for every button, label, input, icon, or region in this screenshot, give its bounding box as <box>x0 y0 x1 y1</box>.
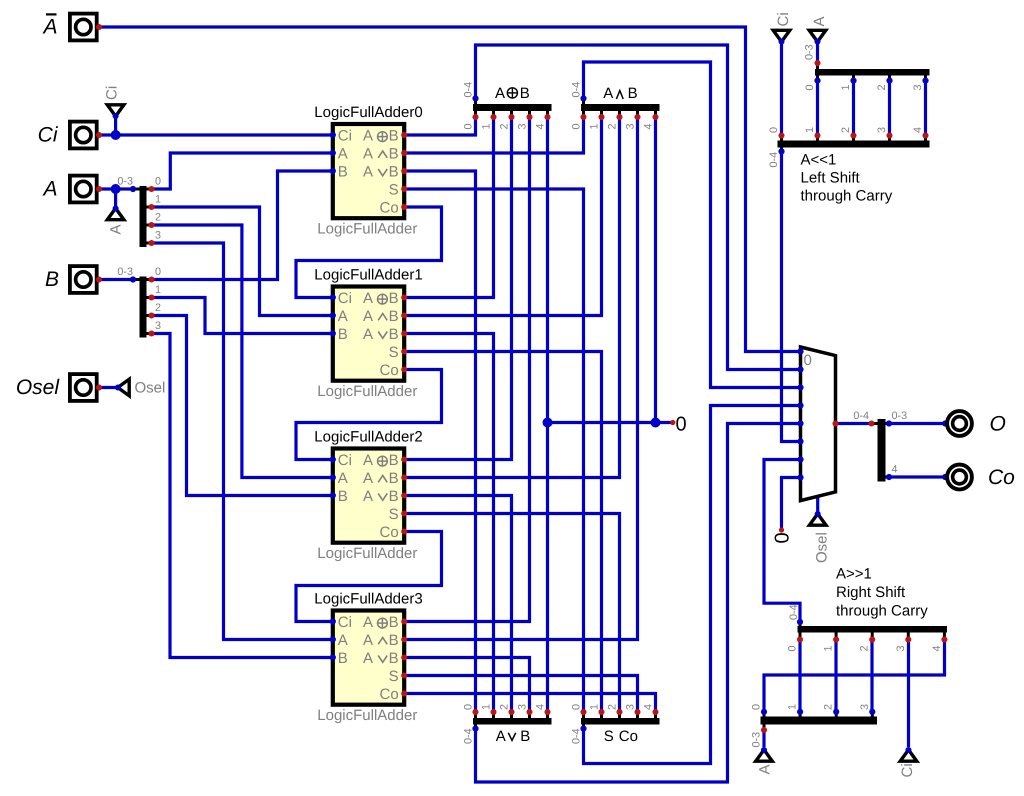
wire adder2 or out to merger <box>404 496 511 713</box>
svg-text:B: B <box>338 326 348 343</box>
wire shiftR bit2 to merger pin1 <box>834 640 837 712</box>
output Co <box>942 465 1015 490</box>
svg-text:B: B <box>45 268 59 291</box>
svg-text:A: A <box>363 650 373 667</box>
wire adder0 S out to merger <box>404 189 583 712</box>
svg-text:1: 1 <box>589 123 601 129</box>
svg-text:0-4: 0-4 <box>571 82 583 98</box>
svg-text:A>>1: A>>1 <box>836 566 872 583</box>
svg-text:Left Shift: Left Shift <box>801 170 861 187</box>
svg-text:0-4: 0-4 <box>463 728 475 744</box>
svg-text:LogicFullAdder: LogicFullAdder <box>317 707 417 724</box>
svg-text:B: B <box>389 326 399 343</box>
svg-text:A: A <box>496 728 506 745</box>
junction Ci tap <box>111 130 121 140</box>
wire adder1 Co to adder2 Ci <box>296 370 442 460</box>
svg-text:Co: Co <box>988 466 1015 489</box>
wire O output wire <box>889 422 946 425</box>
svg-text:4: 4 <box>535 704 547 710</box>
svg-text:0-3: 0-3 <box>804 44 816 60</box>
merger S Co 5 to 1 <box>571 704 660 745</box>
svg-text:4: 4 <box>535 123 547 129</box>
svg-text:O: O <box>990 413 1006 436</box>
tunnel Ci shiftL <box>773 12 792 44</box>
svg-text:2: 2 <box>155 212 161 224</box>
wire const 0 to mux in7 <box>782 478 801 529</box>
svg-text:0-4: 0-4 <box>463 82 475 98</box>
wire splitterB.1 to adder1.B <box>152 298 333 334</box>
wire A shl 1 result to mux in5 <box>782 152 801 442</box>
svg-text:0-3: 0-3 <box>751 732 763 748</box>
wire adder2 S out to merger <box>404 514 619 713</box>
wire Co output wire <box>889 475 946 478</box>
svg-text:3: 3 <box>155 230 161 242</box>
svg-text:A: A <box>363 488 373 505</box>
svg-text:0: 0 <box>571 704 583 710</box>
svg-text:2: 2 <box>607 123 619 129</box>
output O <box>942 411 1006 436</box>
svg-text:Co: Co <box>619 728 638 745</box>
svg-text:S: S <box>389 182 399 199</box>
wire Ci tunnel to shiftR merger pin3 <box>907 640 910 748</box>
svg-text:LogicFullAdder0: LogicFullAdder0 <box>314 104 422 121</box>
svg-text:B: B <box>338 650 348 667</box>
svg-text:A: A <box>363 470 373 487</box>
tunnel A shiftL <box>809 16 828 44</box>
svg-text:2: 2 <box>607 704 619 710</box>
svg-text:A: A <box>338 146 348 163</box>
svg-text:1: 1 <box>787 704 799 710</box>
wire shiftL bit2 to merger pin3 <box>888 81 891 136</box>
tunnel Osel left <box>115 379 165 396</box>
input Ci <box>38 122 102 149</box>
svg-text:A: A <box>363 164 373 181</box>
svg-text:S: S <box>389 344 399 361</box>
svg-text:B: B <box>389 614 399 631</box>
wire adder0 and out to merger <box>404 117 583 153</box>
merger shiftL 5 to 1 <box>768 127 930 205</box>
svg-text:0: 0 <box>804 84 816 90</box>
wire adder3 S out to merger <box>404 676 637 713</box>
svg-text:Ci: Ci <box>338 128 352 145</box>
junction A tap <box>111 184 121 194</box>
wire adder3 and out to merger <box>404 117 637 640</box>
svg-text:B: B <box>389 650 399 667</box>
wire adder0 Co to adder1 Ci <box>296 207 442 298</box>
svg-text:Ci: Ci <box>899 763 916 777</box>
svg-text:Osel: Osel <box>814 532 831 563</box>
tunnel A left <box>107 205 124 234</box>
wire Osel input to tunnel <box>99 386 117 389</box>
wire adder2 Co to adder3 Ci <box>296 532 442 622</box>
svg-text:0: 0 <box>768 127 780 133</box>
svg-text:B: B <box>389 470 399 487</box>
wire adder1 and out to merger <box>404 117 601 316</box>
svg-text:A<<1: A<<1 <box>801 152 837 169</box>
splitter shiftR A 1x4 <box>751 704 878 748</box>
svg-text:3: 3 <box>876 127 888 133</box>
wire A shr 1 result to mux in6 <box>764 460 801 623</box>
wire shiftL bit3 to merger pin4 <box>924 81 927 136</box>
wire adder1 or out to merger <box>404 334 493 713</box>
svg-text:LogicFullAdder: LogicFullAdder <box>317 383 417 400</box>
wire adder2 xor out to merger <box>404 117 511 460</box>
full adder U2 LogicFullAdder2 <box>314 429 422 563</box>
svg-text:S: S <box>389 668 399 685</box>
wire B input to splitter <box>99 278 134 281</box>
svg-text:0-3: 0-3 <box>117 176 133 188</box>
splitter A 1x4 <box>117 176 161 248</box>
wire adder1 xor out to merger <box>404 117 493 298</box>
wire xor merger pin4 vertical tied to const0 <box>546 117 549 712</box>
wire Ci input to adder0 Ci <box>99 133 333 136</box>
wire adder0 or out to merger <box>404 171 475 712</box>
svg-text:3: 3 <box>625 123 637 129</box>
svg-text:2: 2 <box>876 84 888 90</box>
svg-text:B: B <box>389 290 399 307</box>
svg-text:A: A <box>495 85 505 102</box>
wire shiftR bit1 to merger pin0 <box>798 640 801 712</box>
svg-text:0: 0 <box>676 414 687 436</box>
wire adder3 xor out to merger <box>404 117 529 622</box>
svg-text:A: A <box>41 178 57 201</box>
svg-text:0: 0 <box>463 704 475 710</box>
svg-text:Ci: Ci <box>338 452 352 469</box>
svg-text:B: B <box>338 488 348 505</box>
wire adder3 or out to merger <box>404 658 529 713</box>
splitter shiftL A 1x4 <box>804 44 930 90</box>
svg-text:0-4: 0-4 <box>768 152 780 168</box>
wire shiftL bit0 to merger pin1 <box>816 81 819 136</box>
svg-text:A: A <box>338 632 348 649</box>
svg-text:Co: Co <box>380 524 399 541</box>
wire splitterA.1 to adder1.A <box>152 207 333 316</box>
svg-text:B: B <box>628 85 638 102</box>
constant 0 ties merger bit4 <box>670 414 686 436</box>
svg-text:0: 0 <box>787 645 799 651</box>
wire A xor B result to mux in1 <box>476 45 801 370</box>
full adder U1 LogicFullAdder1 <box>314 267 422 401</box>
svg-text:0-4: 0-4 <box>853 410 869 422</box>
tunnel Ci shiftR <box>899 747 917 778</box>
svg-text:0: 0 <box>463 123 475 129</box>
svg-text:0-4: 0-4 <box>788 604 800 620</box>
merger shiftR 5 to 1 <box>787 566 948 652</box>
svg-text:through Carry: through Carry <box>801 188 893 205</box>
svg-text:Osel: Osel <box>135 380 166 397</box>
svg-text:Co: Co <box>380 686 399 703</box>
svg-text:B: B <box>520 85 530 102</box>
svg-text:A: A <box>363 128 373 145</box>
wire A or B result to mux in4 <box>476 424 801 783</box>
svg-text:LogicFullAdder1: LogicFullAdder1 <box>314 267 422 284</box>
wire splitterB.3 to adder3.B <box>152 334 333 658</box>
svg-text:A: A <box>363 452 373 469</box>
svg-text:3: 3 <box>859 704 871 710</box>
svg-text:LogicFullAdder3: LogicFullAdder3 <box>314 591 422 608</box>
tunnel Osel mux <box>809 511 830 563</box>
full adder U0 LogicFullAdder0 <box>314 104 422 238</box>
input B <box>45 266 102 293</box>
wire splitterA.2 to adder2.A <box>152 225 333 478</box>
svg-text:A: A <box>363 146 373 163</box>
svg-text:4: 4 <box>931 645 943 651</box>
svg-text:B: B <box>389 308 399 325</box>
svg-text:0: 0 <box>804 352 812 369</box>
svg-text:3: 3 <box>517 123 529 129</box>
svg-text:0-3: 0-3 <box>117 266 133 278</box>
wire const 0 tie <box>548 421 673 424</box>
svg-text:2: 2 <box>823 704 835 710</box>
splitter O 1x2 <box>853 410 907 482</box>
svg-text:A: A <box>363 632 373 649</box>
svg-text:B: B <box>389 164 399 181</box>
svg-text:LogicFullAdder2: LogicFullAdder2 <box>314 429 422 446</box>
svg-text:LogicFullAdder: LogicFullAdder <box>317 545 417 562</box>
wire splitterA.0 to adder0.A <box>152 153 333 189</box>
svg-text:Right Shift: Right Shift <box>836 584 906 601</box>
wire A tunnel to shiftL splitter <box>816 44 819 64</box>
svg-text:S: S <box>604 728 614 745</box>
tunnel A shiftR <box>756 747 774 775</box>
wire adder3 Co to SCo merger pin4 <box>404 694 655 713</box>
svg-text:4: 4 <box>892 464 898 476</box>
junction xor bit4 zero tie <box>543 418 553 428</box>
wire splitterB.2 to adder2.B <box>152 316 333 496</box>
svg-text:1: 1 <box>155 284 161 296</box>
wire A tunnel to shiftR splitter input <box>762 730 765 747</box>
svg-text:0: 0 <box>155 266 161 278</box>
svg-text:3: 3 <box>625 704 637 710</box>
multiplexer MUX 8 to 1 <box>797 347 838 501</box>
svg-text:Ci: Ci <box>104 86 121 100</box>
wire adder1 S out to merger <box>404 352 601 713</box>
junction and bit4 zero tie <box>651 418 661 428</box>
svg-text:A: A <box>338 470 348 487</box>
wire and merger pin4 vertical tied to const0 <box>654 117 657 423</box>
svg-text:0: 0 <box>772 532 794 543</box>
svg-text:B: B <box>389 128 399 145</box>
tunnel Ci left <box>104 86 124 119</box>
wire A tunnel stub <box>114 189 117 208</box>
svg-text:2: 2 <box>840 127 852 133</box>
full adder U3 LogicFullAdder3 <box>314 591 422 725</box>
merger A or B 5 to 1 <box>463 704 552 745</box>
wire Ci tunnel stub <box>114 116 117 135</box>
merger A xor B 5 to 1 <box>463 82 552 130</box>
svg-text:2: 2 <box>499 704 511 710</box>
svg-text:A: A <box>363 308 373 325</box>
wire S result to mux in3 <box>584 406 801 764</box>
svg-text:Co: Co <box>380 200 399 217</box>
svg-text:0: 0 <box>751 704 763 710</box>
svg-text:0: 0 <box>155 176 161 188</box>
svg-text:through Carry: through Carry <box>836 603 928 620</box>
svg-text:1: 1 <box>481 123 493 129</box>
svg-text:S: S <box>389 506 399 523</box>
svg-text:4: 4 <box>643 704 655 710</box>
svg-text:2: 2 <box>499 123 511 129</box>
svg-text:3: 3 <box>895 645 907 651</box>
wire shiftR bit0 to merger pin4 carry <box>764 640 945 712</box>
svg-text:0-3: 0-3 <box>892 410 908 422</box>
svg-text:3: 3 <box>155 320 161 332</box>
svg-text:Ci: Ci <box>775 12 792 26</box>
svg-text:B: B <box>389 488 399 505</box>
svg-text:B: B <box>389 146 399 163</box>
svg-text:1: 1 <box>155 194 161 206</box>
svg-text:0: 0 <box>571 123 583 129</box>
svg-text:A: A <box>363 326 373 343</box>
wire A input to splitter <box>99 187 134 190</box>
input A <box>41 176 102 203</box>
svg-text:B: B <box>389 632 399 649</box>
wire Abar input to mux in0 <box>99 27 801 352</box>
splitter B 1x4 <box>117 266 161 338</box>
wire shiftR bit3 to merger pin2 <box>870 640 873 712</box>
svg-text:Osel: Osel <box>16 376 61 399</box>
svg-text:1: 1 <box>823 645 835 651</box>
svg-text:Co: Co <box>380 362 399 379</box>
svg-text:LogicFullAdder: LogicFullAdder <box>317 221 417 238</box>
input Osel <box>16 374 102 401</box>
svg-text:1: 1 <box>840 84 852 90</box>
svg-text:A: A <box>603 85 613 102</box>
svg-text:A: A <box>338 308 348 325</box>
merger A and B 5 to 1 <box>571 82 660 130</box>
svg-text:Ci: Ci <box>38 124 59 147</box>
wire adder2 and out to merger <box>404 117 619 478</box>
svg-text:A: A <box>363 290 373 307</box>
wire Ci tunnel to shiftL merger pin0 <box>780 44 783 136</box>
svg-text:2: 2 <box>859 645 871 651</box>
wire splitterA.3 to adder3.A <box>152 243 333 640</box>
svg-text:A: A <box>41 16 57 39</box>
svg-text:0-4: 0-4 <box>571 728 583 744</box>
wire mux output to splitter <box>836 422 872 425</box>
wire A and B result to mux in2 <box>584 62 801 388</box>
svg-text:B: B <box>338 164 348 181</box>
wire mux select to Osel tunnel <box>816 497 819 512</box>
constant 0 to mux in7 <box>772 527 794 543</box>
svg-text:4: 4 <box>643 123 655 129</box>
svg-text:A: A <box>363 614 373 631</box>
wire splitterB.0 to adder0.B <box>152 171 333 280</box>
svg-text:B: B <box>389 452 399 469</box>
svg-text:3: 3 <box>517 704 529 710</box>
wire shiftL bit1 to merger pin2 <box>852 81 855 136</box>
svg-text:4: 4 <box>912 127 924 133</box>
svg-text:Ci: Ci <box>338 614 352 631</box>
svg-text:A: A <box>757 764 774 774</box>
svg-text:B: B <box>520 728 530 745</box>
wire adder0 xor out to merger <box>404 117 475 135</box>
svg-text:3: 3 <box>912 84 924 90</box>
svg-text:1: 1 <box>481 704 493 710</box>
svg-text:2: 2 <box>155 302 161 314</box>
svg-text:1: 1 <box>804 127 816 133</box>
svg-text:1: 1 <box>589 704 601 710</box>
svg-text:Ci: Ci <box>338 290 352 307</box>
svg-text:A: A <box>108 224 125 234</box>
input NotA <box>41 14 102 41</box>
svg-text:A: A <box>811 16 828 26</box>
